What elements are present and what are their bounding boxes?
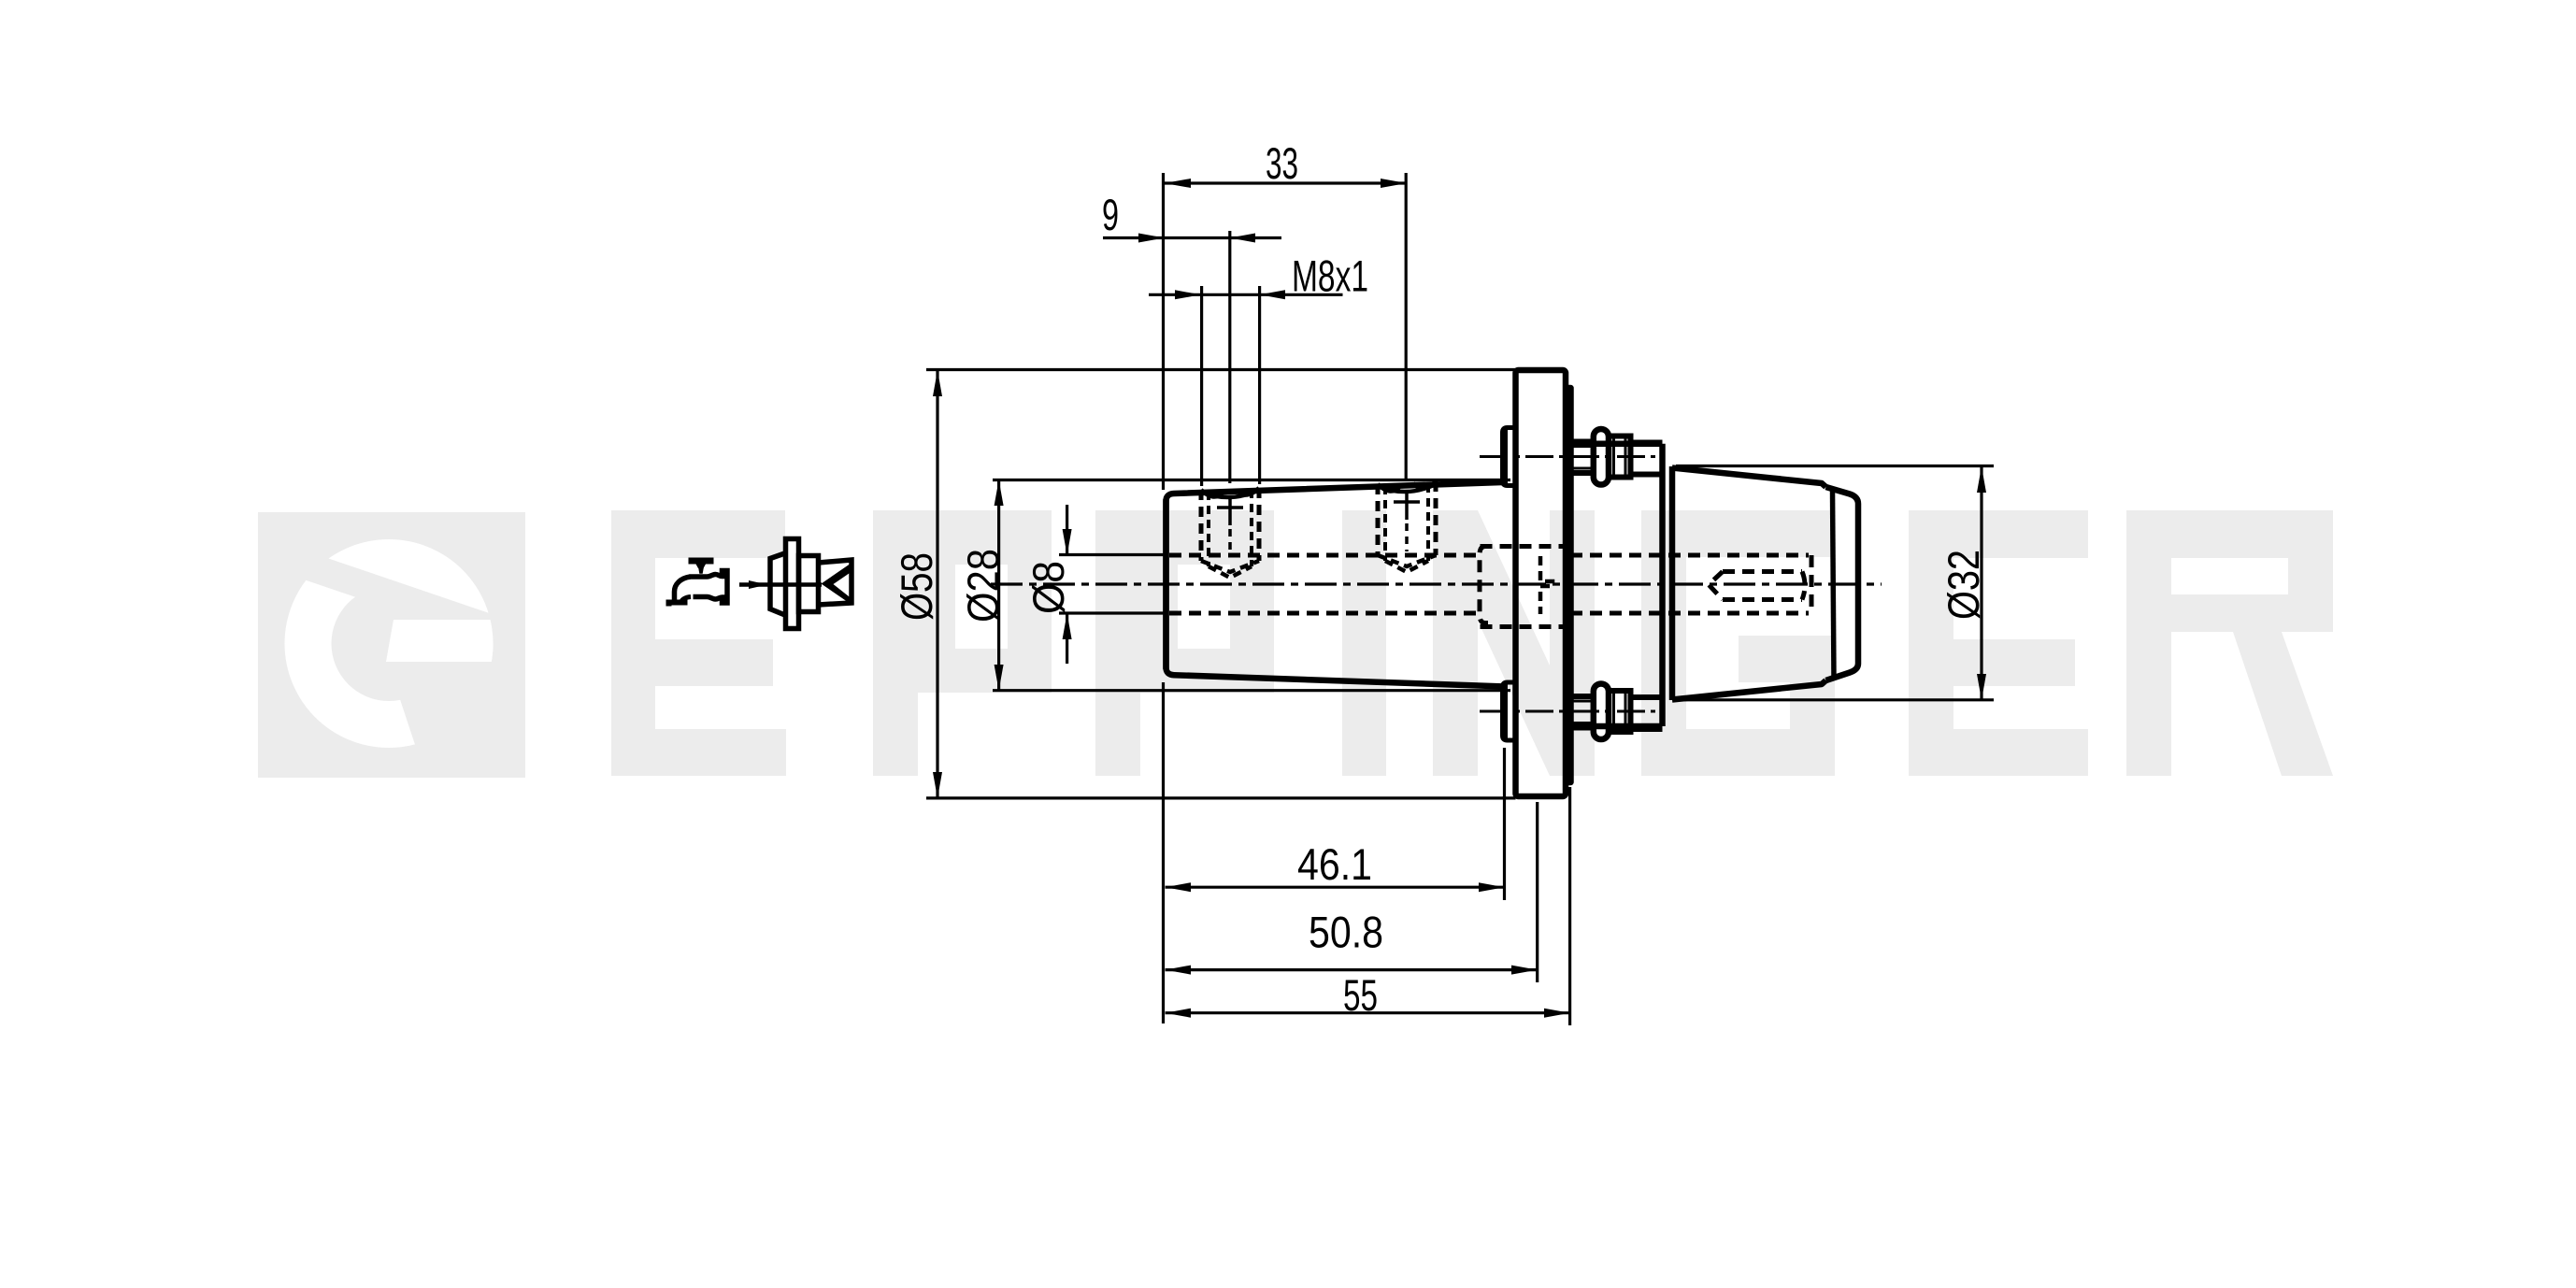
coupling left trapezoid <box>770 553 786 616</box>
cone bottom dashed <box>1385 561 1428 572</box>
dia8 ext lines <box>1059 555 1166 614</box>
ext line 50.8 right <box>1536 802 1538 982</box>
dia8 dim line <box>1066 505 1068 664</box>
housing right face <box>1659 444 1666 726</box>
svg-text:46.1: 46.1 <box>1297 839 1372 889</box>
nut top <box>1609 436 1631 478</box>
stud shaft bottom <box>1566 696 1594 728</box>
svg-text:Ø8: Ø8 <box>1023 561 1073 614</box>
faucet stem <box>698 565 705 574</box>
countersink arc <box>1378 484 1436 492</box>
ext line 55 right <box>1568 787 1571 1025</box>
faucet body <box>690 571 728 604</box>
letter I <box>1342 510 1386 776</box>
mouth arcs <box>1201 488 1259 497</box>
dim line 55 <box>1166 1011 1570 1014</box>
thread outer dashed <box>1378 481 1436 555</box>
coolant coupling symbol <box>770 539 852 629</box>
coolant bore right <box>1570 555 1809 613</box>
coupling arrow <box>822 564 852 605</box>
center cross <box>1394 490 1420 520</box>
svg-text:33: 33 <box>1266 138 1298 188</box>
nose tapped hole <box>1723 572 1802 600</box>
ext line 46.1 right <box>1503 748 1506 900</box>
svg-text:50.8: 50.8 <box>1309 908 1383 957</box>
logo ring hole <box>332 586 447 701</box>
center cross <box>1217 495 1243 525</box>
logo lower-right cut <box>387 660 525 790</box>
cone left face <box>1669 466 1676 700</box>
ext line hole1 center <box>1228 231 1231 483</box>
9 arrows <box>1138 234 1165 243</box>
dia58 arrows <box>933 370 942 396</box>
cone bottom edge <box>1672 680 1826 700</box>
letter R <box>2126 510 2333 776</box>
ext line hole2 center <box>1405 173 1408 479</box>
dim line 50.8 <box>1166 968 1538 971</box>
flow arrow <box>739 580 822 589</box>
cone junction line <box>1833 489 1835 679</box>
letter G <box>1641 510 1835 776</box>
dia32 arrows <box>1977 466 1986 493</box>
dim line 9 <box>1103 236 1281 239</box>
cone bottom dashed <box>1209 566 1252 578</box>
washer top <box>1594 429 1609 485</box>
dia28 dim line <box>997 480 1000 691</box>
coupling funnel <box>819 560 852 605</box>
stud stub left top <box>1503 428 1516 486</box>
main centerline <box>991 582 1882 585</box>
counterbore <box>1480 547 1488 623</box>
dim line 33 <box>1165 181 1407 184</box>
minor dia dashed <box>1385 484 1428 561</box>
cone top edge <box>1672 468 1826 488</box>
dia8 arrows <box>1063 529 1072 555</box>
arrowheads <box>933 179 1986 1018</box>
nut bottom <box>1609 691 1631 732</box>
logo bar <box>386 620 496 662</box>
faucet spout <box>675 577 691 602</box>
dia28 arrows <box>995 480 1004 507</box>
countersink arc <box>1201 490 1259 497</box>
ext lines M8 <box>1202 286 1260 486</box>
logo square <box>258 512 525 778</box>
svg-text:Ø28: Ø28 <box>958 549 1008 623</box>
housing bottom edge <box>1571 723 1663 730</box>
bore end cap <box>1810 555 1814 613</box>
minor dia dashed <box>1209 490 1252 566</box>
svg-text:Ø32: Ø32 <box>1939 550 1988 620</box>
faucet icon <box>666 558 727 607</box>
letter P2 <box>1095 510 1274 776</box>
dia58 dim line <box>936 370 938 798</box>
center hidden <box>1405 523 1409 551</box>
retainer zigzag <box>1540 556 1553 614</box>
flange plate <box>1516 370 1567 796</box>
letter P1 <box>873 510 1052 776</box>
nose cap <box>1826 487 1859 680</box>
letter N <box>1433 510 1595 776</box>
dia32 ext lines <box>1676 466 1994 700</box>
svg-text:55: 55 <box>1343 970 1378 1020</box>
55 arrows <box>1166 1009 1191 1018</box>
stub beyond nut bottom <box>1631 697 1663 729</box>
dia58 ext lines <box>926 370 1516 798</box>
stud centerline bottom <box>1480 710 1655 713</box>
housing top edge <box>1571 440 1663 447</box>
shank left face <box>1163 499 1169 669</box>
stud stub left bottom <box>1503 682 1516 740</box>
faucet handle <box>689 558 714 569</box>
svg-text:9: 9 <box>1102 190 1119 239</box>
flange boss right <box>1566 388 1571 782</box>
stud shaft top <box>1566 442 1594 474</box>
letter E1 <box>611 510 786 776</box>
faucet outlet foot <box>666 600 688 607</box>
mouth arcs <box>1378 481 1436 492</box>
stud centerline top <box>1480 455 1655 458</box>
dim line 46.1 <box>1166 886 1505 889</box>
svg-text:Ø58: Ø58 <box>892 552 941 621</box>
dia28 ext lines <box>993 480 1510 691</box>
letter E2 <box>1909 510 2088 776</box>
dia32 dim line <box>1980 466 1982 700</box>
coupling right block <box>799 556 819 612</box>
stub beyond nut top <box>1631 443 1663 475</box>
coolant bore top <box>1169 553 1480 558</box>
shank body outline <box>1166 482 1503 686</box>
svg-text:M8x1: M8x1 <box>1292 251 1368 301</box>
logo ring <box>285 539 494 748</box>
logo slash band <box>271 539 525 655</box>
center hidden <box>1228 529 1232 557</box>
50.8 arrows <box>1166 966 1191 975</box>
46.1 arrows <box>1166 882 1191 892</box>
M8x1 arrows <box>1175 290 1201 299</box>
dim line M8x1 <box>1149 293 1343 296</box>
ext line shank left <box>1162 173 1165 1023</box>
thread outer dashed <box>1201 488 1259 561</box>
33 arrows <box>1165 179 1191 188</box>
washer bottom <box>1594 684 1609 740</box>
coupling disc <box>786 539 799 629</box>
